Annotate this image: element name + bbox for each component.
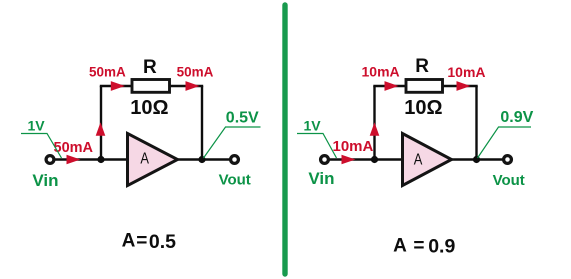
op-amp A (left): [128, 134, 178, 186]
wire: left vertical feedback (right): [373, 86, 375, 160]
divider: [282, 5, 287, 274]
svg-text:0.9V: 0.9V: [500, 109, 533, 126]
svg-text:A: A: [393, 235, 407, 256]
input terminal Vin (left): [46, 156, 54, 164]
current arrow top-right (left): [186, 81, 200, 91]
svg-text:A: A: [140, 151, 149, 168]
wire: left vertical feedback (left): [100, 86, 102, 160]
current arrow top-right (right): [457, 81, 471, 91]
current arrow top-left (left): [111, 81, 125, 91]
current arrow on input wire (right): [342, 155, 356, 165]
gain label A = 0.5 (left): [122, 231, 177, 253]
svg-text:10Ω: 10Ω: [404, 97, 442, 119]
wire: amplifier output to Vout terminal (right): [452, 158, 503, 160]
svg-text:0.5V: 0.5V: [226, 110, 259, 127]
svg-text:0.9: 0.9: [428, 235, 455, 257]
op-amp A (right): [403, 134, 452, 186]
wire: Vin terminal to amplifier input (right): [329, 158, 401, 160]
svg-text:50mA: 50mA: [177, 65, 214, 80]
current arrow up on left vertical wire (right): [370, 122, 380, 136]
wire: right vertical feedback (left): [201, 86, 203, 160]
gain label A = 0.9 (right): [393, 235, 455, 257]
svg-text:=: =: [413, 235, 424, 256]
resistor R (right): [406, 80, 443, 93]
svg-text:10Ω: 10Ω: [130, 97, 168, 119]
junction: input node (left): [97, 156, 104, 163]
svg-text:R: R: [415, 56, 429, 77]
svg-text:A: A: [414, 152, 423, 169]
svg-text:0.5: 0.5: [149, 231, 176, 253]
wire: Vin terminal to amplifier input (left): [54, 158, 126, 160]
svg-text:1V: 1V: [28, 118, 46, 134]
junction: input node (right): [371, 156, 378, 163]
svg-text:Vout: Vout: [219, 171, 251, 188]
svg-text:10mA: 10mA: [362, 64, 400, 80]
leader line for 1V (right): [297, 134, 337, 159]
wire: top feedback through resistor (left): [100, 85, 203, 87]
svg-text:=: =: [136, 231, 147, 252]
svg-text:10mA: 10mA: [333, 138, 374, 155]
svg-text:1V: 1V: [304, 118, 322, 134]
resistor R (left): [132, 80, 170, 93]
current arrow top-left (right): [385, 81, 399, 91]
output terminal Vout (left): [231, 156, 239, 164]
leader line for 0.5V (left): [204, 127, 261, 158]
wire: amplifier output to Vout terminal (left): [178, 158, 230, 160]
input terminal Vin (right): [321, 156, 329, 164]
svg-text:R: R: [143, 57, 157, 78]
junction: output node (right): [473, 156, 480, 163]
junction: output node (left): [198, 156, 205, 163]
leader line for 1V (left): [21, 134, 62, 159]
wire: top feedback through resistor (right): [373, 85, 477, 87]
output terminal Vout (right): [504, 156, 512, 164]
svg-text:Vin: Vin: [32, 171, 58, 190]
current arrow up on left vertical wire (left): [96, 122, 106, 136]
leader line for 0.9V (right): [478, 127, 532, 158]
svg-text:A: A: [122, 231, 136, 252]
wire: right vertical feedback (right): [475, 86, 477, 160]
current arrow on input wire (left): [67, 155, 81, 165]
svg-text:Vin: Vin: [308, 169, 334, 188]
svg-text:Vout: Vout: [493, 172, 525, 189]
svg-text:10mA: 10mA: [447, 64, 485, 80]
svg-text:50mA: 50mA: [89, 64, 126, 79]
